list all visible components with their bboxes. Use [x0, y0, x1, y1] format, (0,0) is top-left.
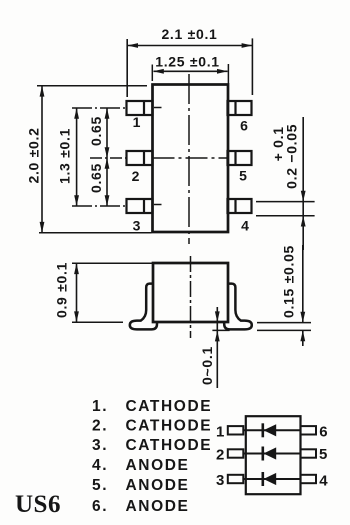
- extension line top (2.0): [37, 85, 147, 87]
- dimension line 2.0: [41, 86, 43, 233]
- svg-text:5.: 5.: [92, 477, 108, 494]
- dimension line 0.65 upper: [106, 108, 108, 158]
- svg-text:0.9 ±0.1: 0.9 ±0.1: [54, 262, 70, 318]
- svg-text:1: 1: [133, 114, 141, 130]
- horizontal center line pin2/5 row: [90, 157, 127, 159]
- extension line pin4 bottom: [256, 215, 315, 217]
- schematic pin box 6: [301, 426, 317, 434]
- svg-text:4: 4: [319, 472, 328, 489]
- svg-text:1.25 ±0.1: 1.25 ±0.1: [155, 54, 220, 70]
- diode D1 (pins 1-6): [263, 423, 276, 437]
- svg-text:1.: 1.: [92, 398, 108, 415]
- schematic pin box 2: [228, 449, 244, 457]
- schematic pin box 3: [228, 475, 244, 483]
- extension line foot bottom (0.15): [257, 329, 311, 331]
- svg-text:6: 6: [240, 118, 248, 134]
- svg-text:2.0 ±0.2: 2.0 ±0.2: [26, 127, 42, 183]
- extension line left (1.25): [151, 65, 153, 82]
- svg-text:US6: US6: [15, 491, 61, 518]
- extension line left (2.1): [126, 39, 128, 97]
- package body (side view): [153, 263, 228, 322]
- wire row 2: [243, 453, 300, 455]
- pin 2 (top view): [127, 151, 153, 165]
- svg-text:3: 3: [133, 218, 141, 234]
- svg-text:2: 2: [216, 447, 224, 464]
- svg-text:5: 5: [319, 446, 327, 463]
- svg-text:ANODE: ANODE: [126, 498, 190, 515]
- svg-text:ANODE: ANODE: [126, 457, 190, 474]
- svg-text:0~0.1: 0~0.1: [199, 346, 215, 385]
- dimension 0~0.1 leader line: [216, 307, 218, 388]
- dimension line 0.15: [302, 245, 304, 323]
- svg-text:0.65: 0.65: [88, 163, 104, 193]
- extension line top (0.9): [72, 262, 153, 264]
- right gull-wing lead (side view): [224, 284, 252, 330]
- dimension line 0.9: [76, 264, 78, 323]
- svg-text:3.: 3.: [92, 437, 108, 454]
- svg-text:6: 6: [319, 423, 327, 440]
- extension line pin4 top: [256, 201, 315, 203]
- schematic pin box 1: [228, 426, 244, 434]
- svg-text:4.: 4.: [92, 457, 108, 474]
- svg-text:ANODE: ANODE: [126, 477, 190, 494]
- svg-text:1: 1: [216, 423, 224, 440]
- pin 6 (top view): [228, 101, 252, 115]
- svg-text:1.3 ±0.1: 1.3 ±0.1: [57, 128, 73, 184]
- left gull-wing lead (side view): [130, 284, 157, 330]
- svg-text:3: 3: [216, 472, 224, 489]
- dimension line 1.25: [154, 70, 228, 72]
- svg-text:5: 5: [239, 168, 247, 184]
- schematic pin box 4: [301, 475, 317, 483]
- center line stub pin1 row: [72, 107, 127, 109]
- dimension line 0.2: [302, 117, 304, 250]
- extension line right (2.1): [251, 38, 253, 95]
- svg-text:2.: 2.: [92, 418, 108, 435]
- wire row 3: [243, 478, 300, 480]
- pin 4 (top view): [228, 199, 252, 213]
- svg-text:2.1 ±0.1: 2.1 ±0.1: [161, 26, 217, 42]
- svg-text:CATHODE: CATHODE: [126, 437, 213, 454]
- schematic pin box 5: [301, 449, 317, 457]
- svg-text:CATHODE: CATHODE: [126, 398, 213, 415]
- extension line bottom (0.9): [72, 321, 123, 323]
- package body (top view): [153, 85, 229, 233]
- svg-text:0.15 ±0.05: 0.15 ±0.05: [280, 245, 296, 318]
- seating plane line (0~0.1): [212, 329, 229, 331]
- dimension line 2.1: [128, 45, 252, 47]
- svg-text:0.2 −0.05: 0.2 −0.05: [283, 124, 299, 189]
- wire row 1: [243, 429, 300, 431]
- svg-text:2: 2: [132, 168, 140, 184]
- dimension line 0.65 lower: [106, 158, 108, 206]
- vertical center line (top view): [188, 74, 190, 244]
- svg-text:CATHODE: CATHODE: [126, 418, 213, 435]
- extension line right (1.25): [227, 64, 229, 84]
- extension line bottom (2.0): [39, 232, 152, 234]
- extension line foot top (0.15): [257, 322, 311, 324]
- svg-text:0.65: 0.65: [88, 116, 104, 146]
- center line stub pin3 row: [72, 205, 127, 207]
- svg-text:6.: 6.: [92, 498, 108, 515]
- diode D2 (pins 2-5): [263, 447, 276, 461]
- pin 3 (top view): [127, 199, 153, 213]
- schematic body outline: [246, 416, 301, 494]
- svg-text:4: 4: [241, 218, 249, 234]
- pin 5 (top view): [228, 151, 252, 165]
- diode D3 (pins 3-4): [263, 472, 276, 486]
- dimension line 1.3: [76, 108, 78, 206]
- pin 1 (top view): [127, 101, 153, 115]
- vertical center line (side view): [190, 256, 192, 338]
